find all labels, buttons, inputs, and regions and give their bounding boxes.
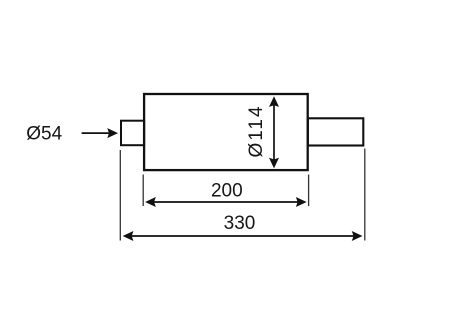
dimension line 200 — [145, 197, 307, 207]
inlet pipe (left) — [121, 121, 144, 146]
svg-text:330: 330 — [224, 213, 256, 234]
extension line body left — [142, 175, 144, 207]
muffler body — [144, 94, 308, 170]
svg-text:Ø54: Ø54 — [26, 124, 62, 145]
extension line body right — [308, 175, 310, 207]
dimension Ø114 vertical arrow — [269, 96, 279, 168]
svg-text:Ø114: Ø114 — [246, 104, 267, 157]
extension line inlet end — [119, 150, 121, 241]
leader arrow to inlet pipe — [82, 128, 118, 138]
dimension line 330 — [123, 231, 363, 241]
outlet pipe (right) — [308, 118, 363, 145]
extension line outlet end — [364, 149, 366, 241]
svg-text:200: 200 — [211, 181, 243, 202]
